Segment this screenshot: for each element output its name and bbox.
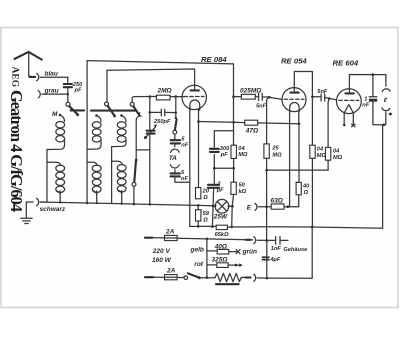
wire coil1 left rail <box>46 150 48 203</box>
node rail-fil row <box>232 121 235 124</box>
wire 47 to RE054 fil <box>258 122 299 125</box>
svg-text:MΩ: MΩ <box>238 152 248 158</box>
capacitor 1nF Gehaeuse <box>267 237 308 253</box>
node wave switch <box>135 159 138 162</box>
resistor 2MOhm <box>156 88 171 100</box>
wire top feedback line <box>87 61 233 97</box>
capacitor 1nF output <box>362 75 384 125</box>
svg-text:47Ω: 47Ω <box>245 127 258 134</box>
wire filament row RE084 to RE054 <box>199 122 245 123</box>
node 025M row <box>232 95 235 98</box>
svg-text:Gehäuse: Gehäuse <box>283 247 307 253</box>
svg-text:40Ω: 40Ω <box>214 243 227 250</box>
mains lead bottom <box>145 276 153 278</box>
terminal blau (plug + socket) <box>30 73 68 80</box>
node cap to grid vertical <box>175 111 177 113</box>
capacitor 2uF <box>208 181 224 227</box>
mains lead top <box>145 237 153 239</box>
node bus coil3 <box>121 203 123 205</box>
lamp 25W <box>213 199 234 220</box>
antenna symbol <box>15 52 42 77</box>
wire 5nF lower to filament leg <box>175 178 190 183</box>
svg-text:nF: nF <box>181 142 188 148</box>
wire bias rail down to E row and mains rail <box>266 170 268 240</box>
svg-text:25W: 25W <box>213 214 228 221</box>
svg-text:04: 04 <box>317 146 324 152</box>
connector pair top row <box>246 239 251 241</box>
wire varcap down to bus <box>149 135 151 205</box>
switch mains <box>177 273 215 279</box>
svg-text:TA: TA <box>169 155 177 162</box>
svg-text:5nF: 5nF <box>256 104 267 110</box>
band switch contact S3 <box>130 102 139 115</box>
wire RE084 anode loop to S2 <box>107 69 195 85</box>
svg-text:Ω: Ω <box>202 195 208 201</box>
resistor 59Ohm <box>196 205 210 226</box>
svg-text:Geatron 4 G/fG/604: Geatron 4 G/fG/604 <box>7 90 26 212</box>
wire selector vertical lower <box>206 251 208 278</box>
svg-text:50: 50 <box>239 183 246 189</box>
coil 2 lower <box>87 162 101 194</box>
svg-text:300: 300 <box>220 146 230 152</box>
svg-text:250pF: 250pF <box>153 119 171 125</box>
resistor 47Ohm <box>245 120 258 134</box>
tube RE084 <box>182 85 206 110</box>
resistor 20Ohm <box>196 188 210 202</box>
wire selector vertical <box>206 239 208 251</box>
terminal grau (plug + socket) <box>38 91 68 98</box>
ground <box>21 202 32 224</box>
model name text AEG Geatron 4 G/fG/604 (rotated) <box>7 67 26 213</box>
resistor 325Ohm tap rot <box>207 256 243 267</box>
svg-text:E: E <box>247 205 252 212</box>
coil 3 lower <box>112 161 127 194</box>
bias rail <box>267 169 329 171</box>
coil 2 top <box>87 114 101 149</box>
resistor 65kOhm <box>215 225 229 238</box>
tube RE054 <box>282 88 306 113</box>
capacitor 4uF electrolytic <box>262 256 281 263</box>
wire bottom loop to + rail <box>267 227 312 278</box>
grid network 300pF + 04M <box>210 131 248 170</box>
resistor 40Ohm filament RE604 <box>296 182 310 206</box>
wire long left rail from top wire through switch to bus <box>86 61 88 203</box>
svg-text:RE 084: RE 084 <box>201 55 227 64</box>
svg-text:63Ω: 63Ω <box>271 197 283 204</box>
coil M top (antenna coil 1 upper) <box>47 114 65 150</box>
wire to fuse 1 <box>153 237 165 239</box>
wire to fuse 2 <box>153 276 164 278</box>
wire switch S3 to grid row <box>132 97 150 103</box>
wire tuning line down <box>149 97 151 131</box>
wire heater row <box>190 225 216 227</box>
node bus 20/59 <box>197 204 200 207</box>
terminal schwarz (plug + socket) <box>26 198 47 205</box>
variable capacitor (tuning) <box>144 124 157 139</box>
wire coil1 bottom hook to bus <box>59 191 61 202</box>
svg-text:65kΩ: 65kΩ <box>215 232 229 238</box>
switch S4 (pickup switch) <box>132 161 136 205</box>
svg-text:5nF: 5nF <box>317 89 328 95</box>
jack TA lower socket <box>170 165 179 173</box>
svg-text:schwarz: schwarz <box>40 206 66 213</box>
node 2M left <box>149 95 152 98</box>
node bias rail left <box>265 169 268 172</box>
svg-text:25: 25 <box>271 146 279 152</box>
node 2M right grid <box>175 95 178 98</box>
node RE054 fil right <box>298 122 301 125</box>
svg-text:kΩ: kΩ <box>239 189 247 195</box>
resistor 40Ohm tap gelb <box>207 243 240 254</box>
switch gang bar <box>71 109 85 111</box>
svg-text:pF: pF <box>74 88 82 94</box>
speaker socket + bottom <box>382 108 393 126</box>
svg-text:AEG: AEG <box>10 67 20 88</box>
wire mid rail down <box>233 97 235 131</box>
node bus coil1 <box>59 201 61 203</box>
wire rc pair down legs <box>214 168 233 183</box>
svg-text:nF: nF <box>362 103 369 109</box>
capacitor 5nF upper <box>171 137 189 149</box>
node rail2 bus <box>86 202 89 205</box>
svg-text:rot: rot <box>194 261 204 268</box>
band switch contact S1 <box>66 102 79 116</box>
svg-text:40: 40 <box>302 184 310 190</box>
wire RE604 filament pins <box>342 113 355 127</box>
wire jog between rails <box>136 149 150 151</box>
resistor 025MOhm <box>240 87 261 99</box>
node heater 65k right <box>230 226 233 229</box>
wire connector2 to rail <box>257 277 267 279</box>
wire coil2 bottom hook to bus <box>96 191 98 203</box>
node grid RE054 <box>268 96 271 99</box>
svg-text:L: L <box>139 112 143 119</box>
svg-text:04: 04 <box>333 148 340 154</box>
speaker socket L top <box>382 75 390 104</box>
svg-text:grün: grün <box>242 249 257 256</box>
resistor 50kOhm <box>231 182 247 227</box>
svg-text:2A: 2A <box>165 228 175 235</box>
svg-text:04: 04 <box>238 146 245 152</box>
wire mains rail down <box>266 240 268 278</box>
svg-text:Ω: Ω <box>202 217 208 223</box>
svg-text:RE 054: RE 054 <box>281 57 307 66</box>
node plus rail <box>311 226 314 229</box>
svg-text:20: 20 <box>202 189 210 195</box>
wire fuse1 to connector <box>177 238 253 240</box>
wire connector to rail <box>257 239 267 241</box>
svg-text:pF: pF <box>220 152 228 158</box>
tube RE604 <box>337 88 362 113</box>
wire coil3 left rail <box>111 147 113 204</box>
node anode-1nF <box>372 73 375 76</box>
wire 2M right to grid node <box>170 96 184 98</box>
svg-text:grau: grau <box>44 88 59 95</box>
resistor 63Ohm <box>271 197 299 209</box>
node mains rail top <box>266 239 269 242</box>
resistor 04MOhm grid leak RE604 <box>325 99 342 171</box>
svg-text:RE 604: RE 604 <box>333 58 359 67</box>
ground bus wire <box>40 202 215 206</box>
wire RE054 filament legs <box>290 111 299 206</box>
heater resistance element zigzag <box>215 273 243 284</box>
svg-text:Ω: Ω <box>303 190 309 196</box>
svg-text:M: M <box>52 111 58 118</box>
wire S5 to 5nF <box>174 134 176 139</box>
node grau junction <box>67 93 69 95</box>
svg-text:2A: 2A <box>166 267 176 274</box>
wire grid row to 2M resistor <box>150 96 157 98</box>
svg-text:ℓ: ℓ <box>383 97 388 104</box>
capacitor 250pF antenna <box>64 82 83 94</box>
switch gang bar right part <box>91 110 136 112</box>
coil 1 lower <box>47 162 65 194</box>
fuse 2A top <box>165 228 178 240</box>
band switch contact S2 <box>105 102 116 117</box>
svg-text:MΩ: MΩ <box>272 152 282 158</box>
svg-text:blau: blau <box>45 71 58 78</box>
svg-text:MΩ: MΩ <box>333 155 343 161</box>
svg-text:µF: µF <box>216 188 224 194</box>
terminal E <box>247 203 272 211</box>
resistor 04MOhm anode load RE054 <box>310 145 327 227</box>
node heater rail bottom <box>266 277 269 280</box>
svg-text:220 V: 220 V <box>152 248 171 255</box>
jack TA upper socket <box>171 145 180 153</box>
connector pair bottom row <box>242 276 246 278</box>
wire blau node down to capacitor <box>67 77 69 82</box>
wire cap bottom to band switch 1 <box>67 89 69 102</box>
coil 3 top <box>112 114 127 146</box>
svg-text:gelb: gelb <box>190 246 204 253</box>
wire RE604 anode loop <box>349 75 385 89</box>
svg-text:160 W: 160 W <box>152 257 172 264</box>
wire ganged lever S3 tail down <box>136 116 139 160</box>
capacitor 5nF lower <box>171 170 189 182</box>
resistor 25MOhm grid leak RE054 <box>264 97 282 170</box>
node fil RE084 <box>197 120 200 123</box>
svg-text:59: 59 <box>203 211 210 217</box>
wire RE084 filament leg left <box>189 110 191 227</box>
svg-text:325Ω: 325Ω <box>212 256 228 263</box>
wire RE084 filament leg right <box>198 110 200 188</box>
wire to 025M resistor <box>234 96 242 98</box>
svg-text:2MΩ: 2MΩ <box>157 88 172 95</box>
node bus-S4 <box>133 203 136 206</box>
capacitor 250pF grid <box>150 109 176 125</box>
fuse 2A bottom <box>165 267 178 279</box>
wire grid node vertical down <box>175 97 177 118</box>
node E rail <box>265 206 268 209</box>
node tuning cap row <box>149 111 152 114</box>
svg-text:1nF: 1nF <box>271 246 282 252</box>
wire coil3 bottom hook to bus <box>121 191 123 204</box>
node heater 59 <box>197 225 200 228</box>
wire RE054 anode loop <box>294 72 312 146</box>
switch S5 (TA switch) <box>173 117 177 134</box>
node bus coil2 <box>96 202 98 204</box>
capacitor 5nF coupling RE604 <box>311 89 336 101</box>
node bus-varcap <box>149 203 152 206</box>
node heater 2uF leg <box>211 225 214 228</box>
wire grid to tube RE054 <box>269 97 282 99</box>
svg-text:4µF: 4µF <box>269 257 280 263</box>
svg-text:nF: nF <box>181 176 188 182</box>
capacitor 5nF RE054 grid <box>255 93 269 109</box>
wire heater row right <box>227 125 382 228</box>
node voltage selector tap <box>206 238 209 241</box>
